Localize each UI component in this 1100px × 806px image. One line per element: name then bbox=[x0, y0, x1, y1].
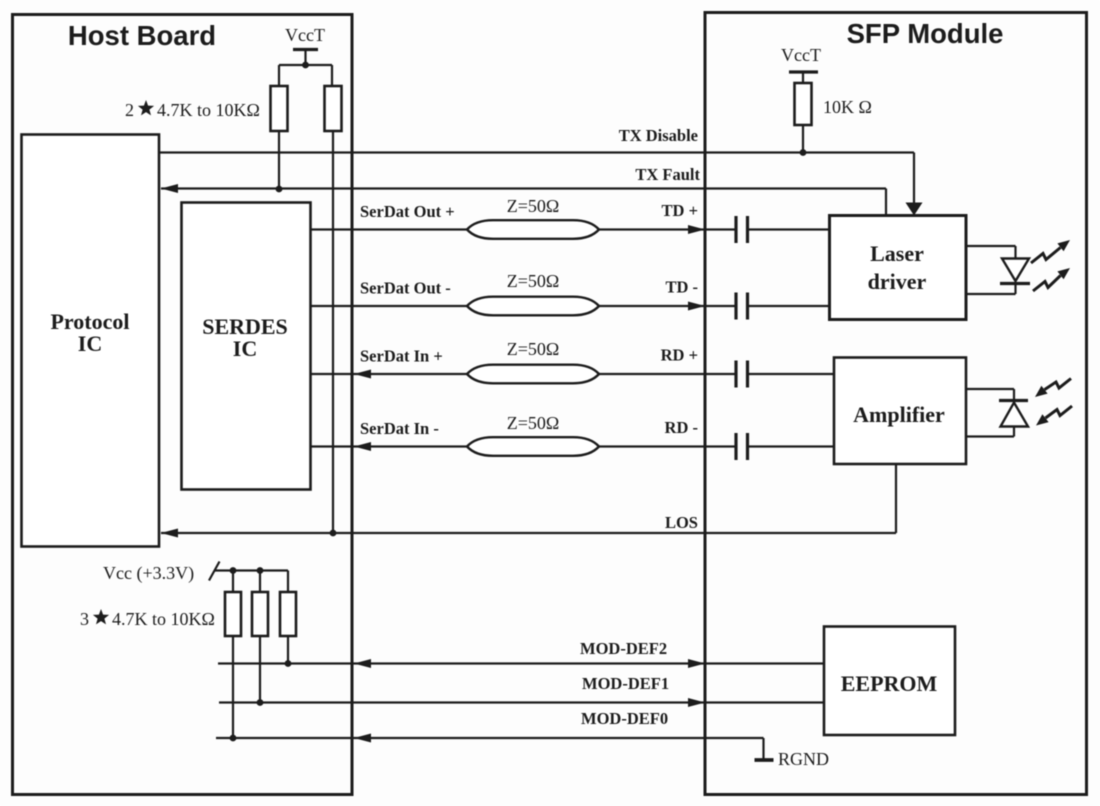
wire TD - bbox=[599, 305, 705, 307]
resistor R5 (MOD-DEF1 pullup) bbox=[252, 592, 268, 636]
SERDES IC U2 bbox=[182, 203, 311, 490]
coupling capacitor (RD -) bbox=[707, 445, 737, 447]
wire TX Disable drop into laser driver bbox=[913, 153, 915, 205]
LED D1 cathode wire bbox=[1014, 284, 1016, 295]
Laser driver U3 bbox=[830, 216, 967, 320]
wire TX Disable bbox=[159, 151, 914, 153]
wire MOD-DEF0 bbox=[216, 737, 764, 739]
svg-text:Z=50Ω: Z=50Ω bbox=[507, 413, 560, 433]
wire RD + bbox=[599, 373, 705, 375]
svg-text:TX Fault: TX Fault bbox=[635, 165, 700, 184]
svg-text:3: 3 bbox=[80, 609, 89, 629]
svg-text:MOD-DEF1: MOD-DEF1 bbox=[582, 674, 669, 693]
svg-text:Z=50Ω: Z=50Ω bbox=[507, 271, 560, 291]
transmission line Z=50 ohm (SerDat Out -) bbox=[467, 297, 599, 316]
LED D1 bbox=[1002, 259, 1029, 282]
resistor R1 (TX Fault pullup) bbox=[271, 86, 288, 131]
svg-text:SerDat Out -: SerDat Out - bbox=[360, 279, 451, 298]
wire LOS bbox=[161, 532, 896, 534]
wire R3 to TX Disable bbox=[802, 125, 804, 153]
ground RGND bbox=[755, 758, 774, 762]
EEPROM U5 bbox=[824, 627, 955, 736]
node Vcc rail bbox=[214, 569, 288, 571]
svg-text:Amplifier: Amplifier bbox=[853, 402, 945, 427]
wire TD + bbox=[599, 228, 705, 230]
light arrow out 1 bbox=[1031, 248, 1061, 264]
wire SerDat In + bbox=[311, 373, 468, 375]
wire R2 to LOS bbox=[332, 131, 334, 533]
svg-text:MOD-DEF2: MOD-DEF2 bbox=[580, 639, 667, 658]
svg-text:4.7K to 10KΩ: 4.7K to 10KΩ bbox=[157, 100, 260, 120]
transmission line Z=50 ohm (SerDat In +) bbox=[467, 365, 599, 384]
SFP Module outline bbox=[705, 13, 1087, 795]
light arrow out 2 bbox=[1033, 276, 1061, 292]
wire SerDat Out - bbox=[311, 305, 468, 307]
resistor R4 (MOD-DEF0 pullup) bbox=[225, 592, 241, 636]
svg-text:VccT: VccT bbox=[285, 25, 325, 45]
svg-text:TD -: TD - bbox=[665, 278, 698, 297]
wire R1 to TX Fault bbox=[278, 131, 280, 189]
svg-text:SerDat In -: SerDat In - bbox=[360, 419, 439, 438]
wire SerDat In - bbox=[311, 445, 468, 447]
photodiode D2 bbox=[1001, 403, 1029, 427]
svg-text:Vcc (+3.3V): Vcc (+3.3V) bbox=[103, 563, 194, 584]
wire MOD-DEF1 bbox=[219, 701, 824, 703]
svg-text:VccT: VccT bbox=[781, 45, 821, 65]
resistor R3 10K pullup bbox=[795, 83, 812, 125]
wire TX Fault from laser driver bbox=[885, 189, 887, 216]
svg-text:RD -: RD - bbox=[665, 418, 698, 437]
light arrow in 1 bbox=[1045, 379, 1072, 390]
wire TX Fault bbox=[161, 187, 886, 189]
svg-text:IC: IC bbox=[78, 331, 102, 356]
svg-text:MOD-DEF0: MOD-DEF0 bbox=[581, 709, 668, 728]
svg-text:2: 2 bbox=[125, 100, 134, 120]
coupling capacitor (TD -) bbox=[707, 305, 737, 307]
wire RD - bbox=[599, 445, 705, 447]
svg-text:EEPROM: EEPROM bbox=[841, 671, 938, 696]
svg-text:RGND: RGND bbox=[778, 749, 829, 769]
LED D1 anode wire bbox=[966, 245, 1016, 247]
svg-text:IC: IC bbox=[233, 336, 257, 361]
svg-text:driver: driver bbox=[868, 269, 927, 294]
svg-text:SFP Module: SFP Module bbox=[847, 18, 1004, 49]
svg-text:Host Board: Host Board bbox=[68, 20, 216, 51]
photodiode D2 cathode wire bbox=[966, 388, 1014, 390]
photodiode D2 anode wire bbox=[1013, 427, 1015, 437]
wire MOD-DEF2 bbox=[218, 662, 824, 664]
svg-text:Z=50Ω: Z=50Ω bbox=[507, 339, 560, 359]
svg-text:Laser: Laser bbox=[870, 241, 924, 266]
wire MOD-DEF0 to ground bbox=[762, 738, 764, 759]
svg-text:SerDat Out +: SerDat Out + bbox=[360, 202, 455, 221]
wire LOS from amplifier bbox=[895, 464, 897, 533]
svg-text:4.7K to 10KΩ: 4.7K to 10KΩ bbox=[112, 609, 215, 629]
resistor R2 (LOS pullup) bbox=[325, 86, 342, 131]
Amplifier U4 bbox=[834, 358, 966, 465]
coupling capacitor (RD +) bbox=[707, 373, 737, 375]
svg-text:TX Disable: TX Disable bbox=[619, 126, 698, 145]
node VccT rail bbox=[279, 64, 332, 66]
svg-text:LOS: LOS bbox=[665, 513, 698, 532]
wire R4 to MOD-DEF0 bbox=[232, 636, 234, 738]
svg-text:SerDat In +: SerDat In + bbox=[360, 347, 443, 366]
Protocol IC U1 bbox=[22, 135, 160, 547]
wire SerDat Out + bbox=[311, 228, 468, 230]
svg-text:10K Ω: 10K Ω bbox=[823, 97, 872, 117]
light arrow in 2 bbox=[1046, 406, 1073, 418]
svg-text:RD +: RD + bbox=[661, 346, 698, 365]
coupling capacitor (TD +) bbox=[707, 228, 737, 230]
transmission line Z=50 ohm (SerDat Out +) bbox=[467, 220, 599, 239]
wire to resistor tops bbox=[278, 65, 280, 86]
Host Board outline bbox=[13, 15, 353, 795]
wire R5 to MOD-DEF1 bbox=[259, 636, 261, 703]
wire R6 to MOD-DEF2 bbox=[287, 636, 289, 664]
resistor R6 (MOD-DEF2 pullup) bbox=[280, 592, 296, 636]
svg-text:Z=50Ω: Z=50Ω bbox=[507, 196, 560, 216]
transmission line Z=50 ohm (SerDat In -) bbox=[467, 437, 599, 456]
svg-text:TD +: TD + bbox=[662, 201, 698, 220]
wires rail to resistor tops bbox=[232, 571, 234, 593]
